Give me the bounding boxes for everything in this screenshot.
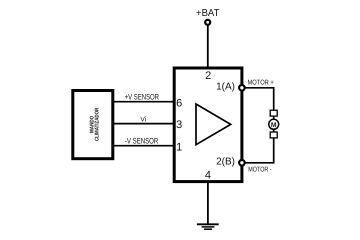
svg-text:MOTOR +: MOTOR + xyxy=(248,79,274,86)
ground xyxy=(197,224,219,229)
amplifier triangle xyxy=(196,104,231,145)
label MANDO CLIMATIZADOR xyxy=(89,108,100,141)
wire Vi xyxy=(113,123,174,125)
svg-text:-V SENSOR: -V SENSOR xyxy=(125,137,159,146)
box MANDO CLIMATIZADOR xyxy=(73,91,113,159)
wire -V SENSOR xyxy=(113,145,174,147)
svg-text:1: 1 xyxy=(176,141,182,153)
motor M1 brush top xyxy=(270,110,277,116)
motor M1 brush bottom xyxy=(270,132,277,138)
wire motor - xyxy=(245,162,274,164)
svg-text:Vi: Vi xyxy=(140,116,146,124)
svg-text:1(A): 1(A) xyxy=(216,82,235,93)
terminal +BAT xyxy=(205,20,210,25)
svg-text:+BAT: +BAT xyxy=(196,8,219,19)
motor M1 body xyxy=(269,119,279,129)
svg-text:2(B): 2(B) xyxy=(216,157,235,168)
svg-text:CLIMATIZADOR: CLIMATIZADOR xyxy=(95,108,101,141)
terminal 2(B) xyxy=(239,160,245,166)
svg-text:M: M xyxy=(271,122,277,129)
svg-text:4: 4 xyxy=(205,170,211,182)
wire motor vertical xyxy=(273,87,275,164)
svg-text:3: 3 xyxy=(176,119,182,131)
svg-text:6: 6 xyxy=(176,98,182,110)
svg-text:2: 2 xyxy=(205,70,211,82)
wire pin 4 to ground xyxy=(207,182,209,225)
terminal 1(A) xyxy=(239,85,245,91)
wire +V SENSOR xyxy=(113,101,174,103)
svg-text:+V SENSOR: +V SENSOR xyxy=(125,93,159,102)
svg-text:MOTOR -: MOTOR - xyxy=(248,167,272,174)
wire +BAT to pin 2 xyxy=(207,26,209,69)
op-amp box U1 xyxy=(174,68,242,182)
wire motor + xyxy=(245,87,274,89)
